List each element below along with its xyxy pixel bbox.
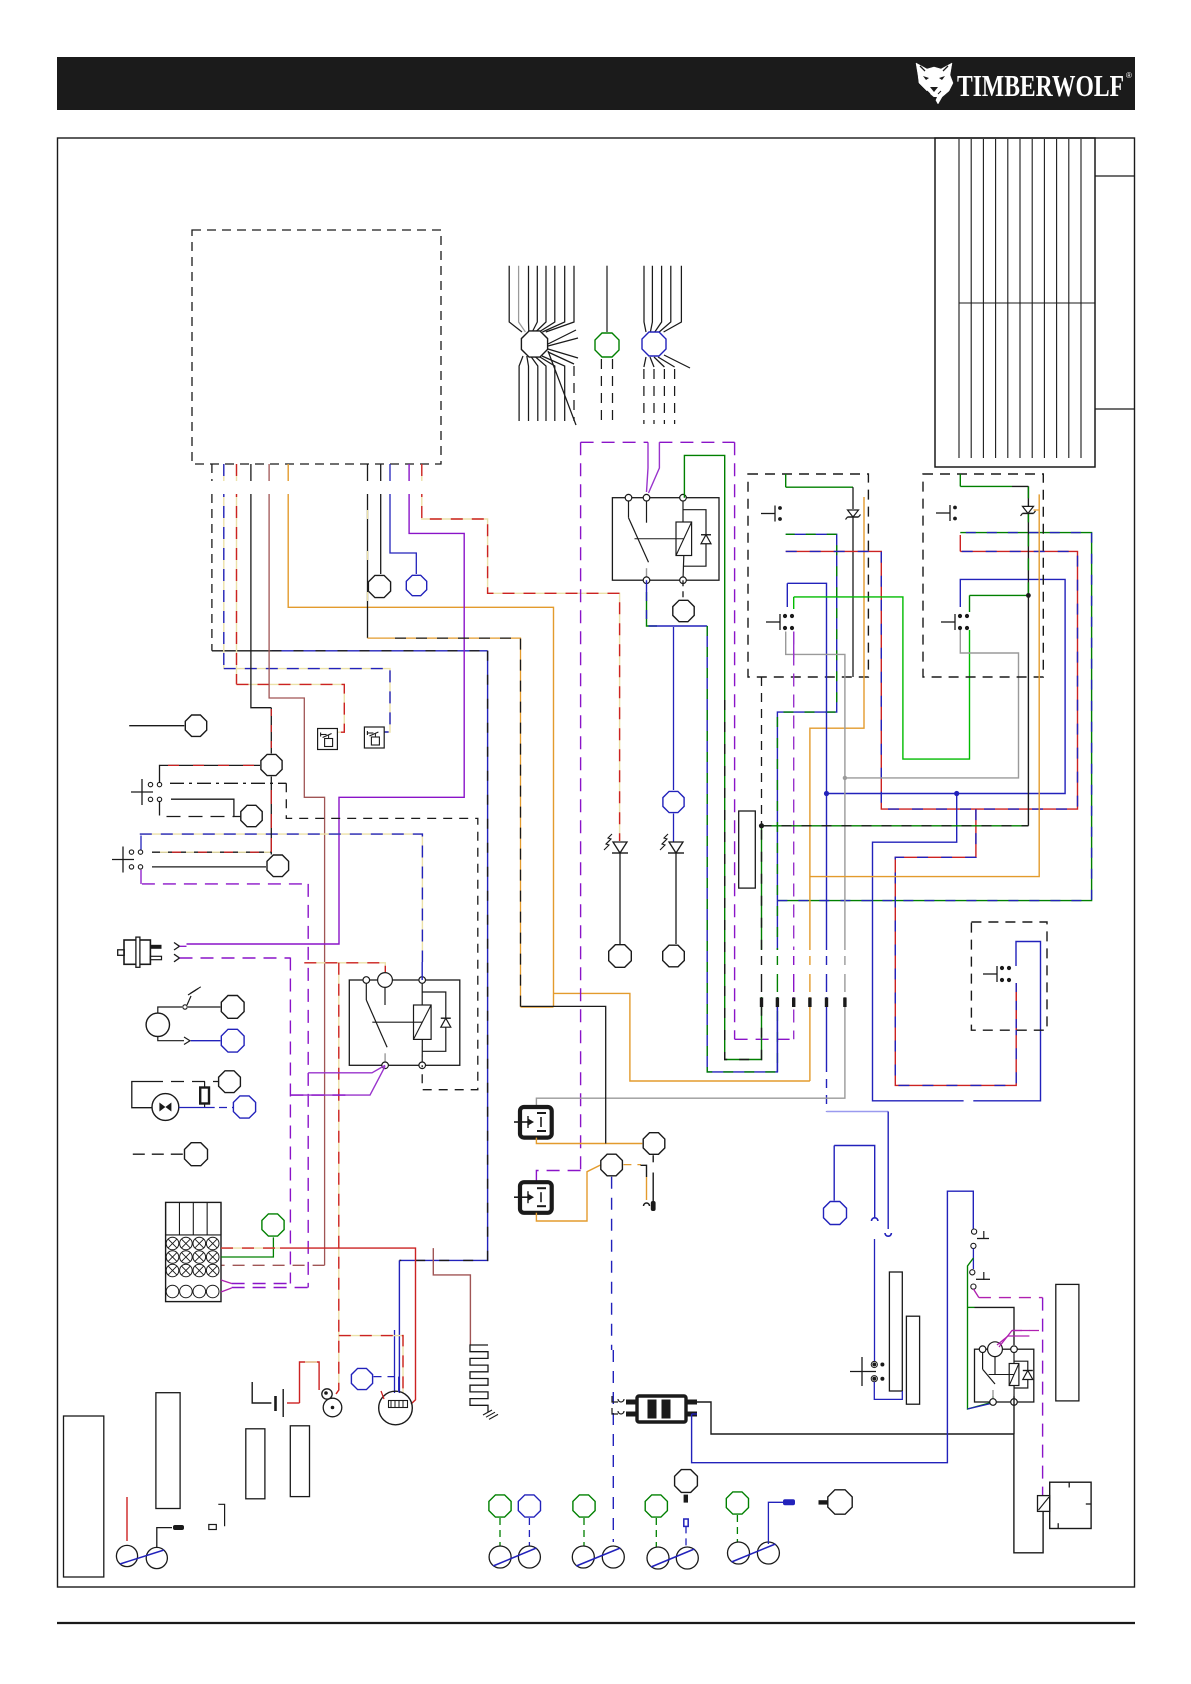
svg-text:TIMBERWOLF: TIMBERWOLF [957, 68, 1124, 103]
svg-text:®: ® [1126, 71, 1132, 80]
